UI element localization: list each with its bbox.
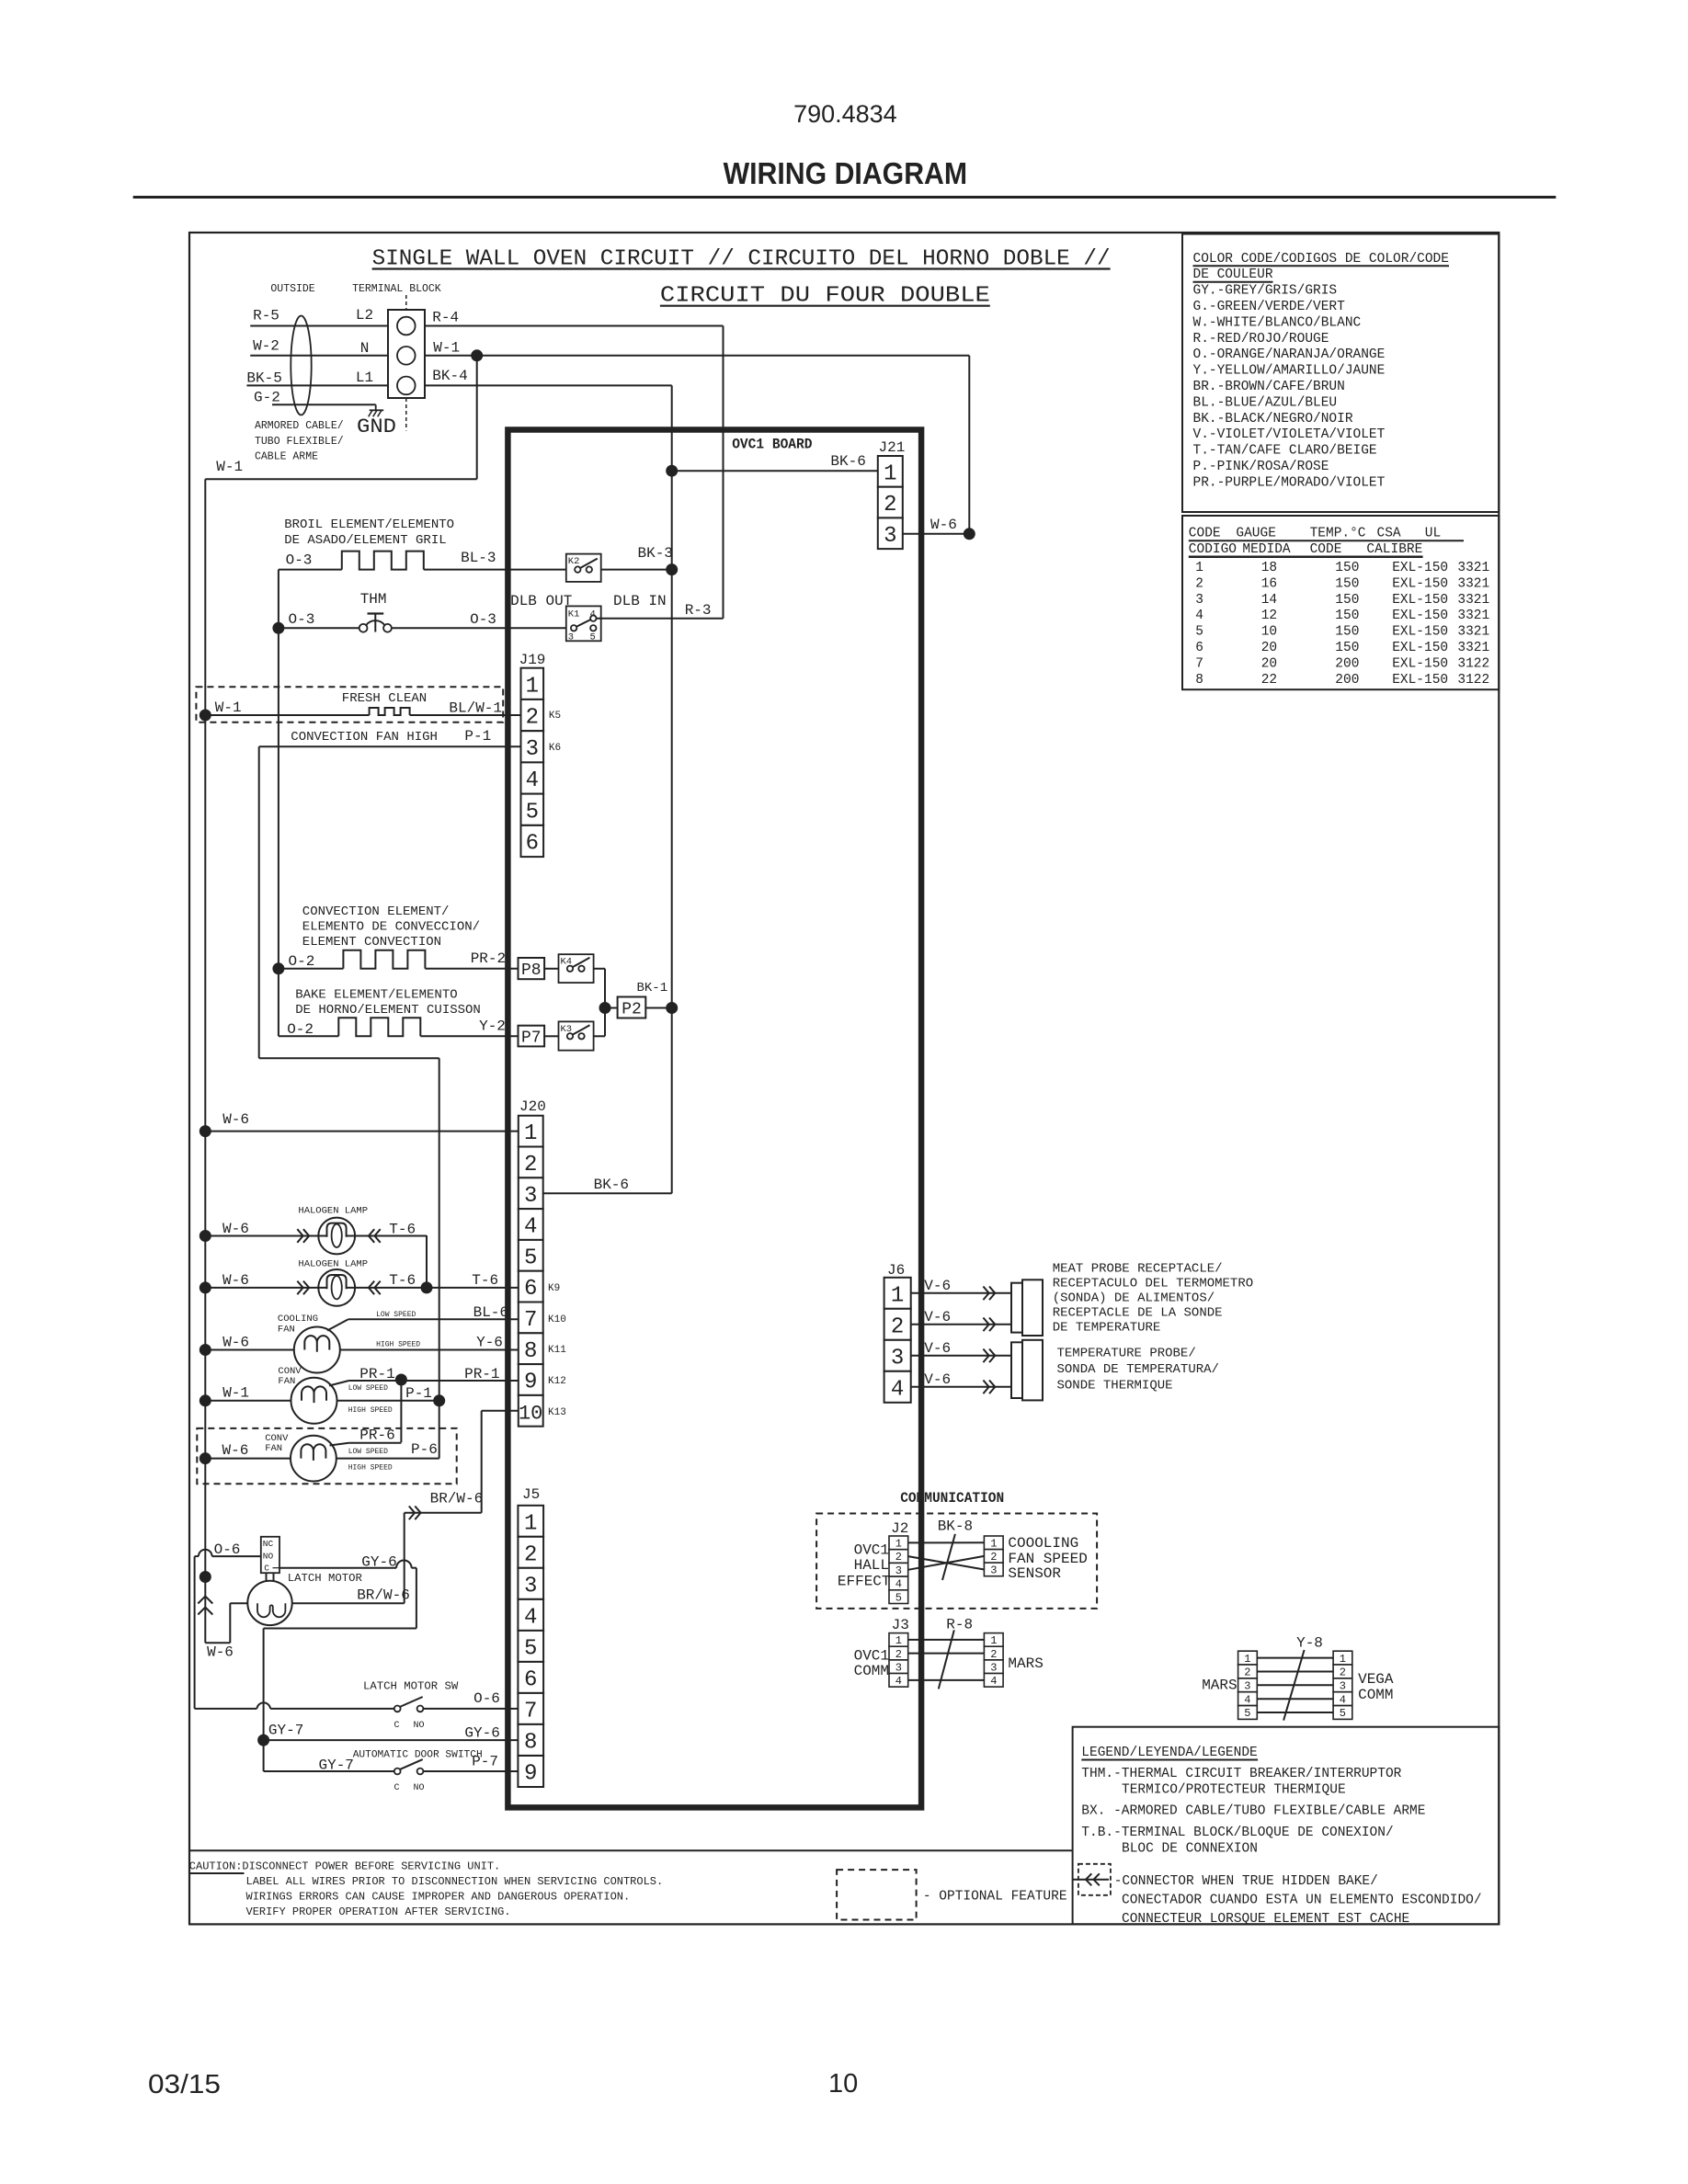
diagram border frame (189, 233, 1499, 1924)
junction dot GY-7 (258, 1723, 304, 1746)
ground symbol GND (357, 404, 396, 438)
schematic title line 1 (372, 247, 1111, 272)
svg-text:HALOGEN LAMP: HALOGEN LAMP (298, 1259, 368, 1270)
svg-text:EXL-150: EXL-150 (1392, 641, 1448, 655)
left neutral bus W-1/W-6 (204, 479, 206, 1643)
svg-text:4: 4 (891, 1377, 904, 1402)
svg-text:L1: L1 (356, 370, 373, 386)
svg-text:O.-ORANGE/NARANJA/ORANGE: O.-ORANGE/NARANJA/ORANGE (1193, 347, 1386, 362)
svg-text:WIRING DIAGRAM: WIRING DIAGRAM (724, 156, 968, 190)
svg-text:HALL: HALL (854, 1557, 889, 1574)
label COOOLING FAN SPEED SENSOR (1008, 1535, 1087, 1582)
svg-text:CABLE ARME: CABLE ARME (255, 451, 318, 463)
svg-text:(SONDA) DE ALIMENTOS/: (SONDA) DE ALIMENTOS/ (1053, 1291, 1215, 1306)
svg-text:5: 5 (526, 800, 539, 825)
cable Y-8 (1283, 1635, 1323, 1721)
svg-text:K13: K13 (548, 1407, 566, 1418)
svg-text:PR.-PURPLE/MORADO/VIOLET: PR.-PURPLE/MORADO/VIOLET (1193, 475, 1386, 490)
svg-text:790.4834: 790.4834 (793, 100, 897, 128)
svg-text:150: 150 (1335, 593, 1359, 608)
svg-text:COMM: COMM (854, 1663, 889, 1679)
terminal block TB (388, 310, 425, 398)
svg-text:NC: NC (263, 1539, 274, 1549)
svg-text:FAN: FAN (278, 1376, 295, 1387)
svg-text:ELEMENTO DE CONVECCION/: ELEMENTO DE CONVECCION/ (302, 920, 480, 935)
svg-text:2: 2 (1244, 1666, 1250, 1679)
svg-text:3: 3 (990, 1564, 997, 1577)
svg-text:1: 1 (990, 1634, 997, 1647)
svg-text:BLOC DE CONNEXION: BLOC DE CONNEXION (1122, 1842, 1258, 1857)
wire BK-4 vertical bus (425, 368, 672, 1193)
svg-text:4: 4 (895, 1675, 902, 1688)
svg-text:CODE: CODE (1189, 527, 1221, 541)
svg-text:THM: THM (360, 591, 387, 608)
svg-text:K6: K6 (549, 743, 561, 754)
svg-text:BK-8: BK-8 (938, 1519, 973, 1535)
svg-text:WIRINGS ERRORS CAN CAUSE IMPRO: WIRINGS ERRORS CAN CAUSE IMPROPER AND DA… (246, 1891, 631, 1904)
svg-text:2: 2 (895, 1648, 902, 1661)
connector P8 (519, 958, 545, 980)
svg-text:EXL-150: EXL-150 (1392, 561, 1448, 575)
svg-text:GY-6: GY-6 (464, 1725, 499, 1742)
svg-text:W-6: W-6 (222, 1442, 249, 1459)
svg-text:3122: 3122 (1457, 673, 1489, 688)
wire BK-5 (246, 370, 388, 387)
svg-text:5: 5 (1244, 1707, 1250, 1720)
svg-text:3: 3 (1195, 593, 1203, 608)
svg-text:DE TEMPERATURE: DE TEMPERATURE (1053, 1321, 1161, 1336)
label DLB OUT / DLB IN (510, 593, 711, 619)
label COMMUNICATION (900, 1490, 1004, 1507)
svg-text:7: 7 (1195, 657, 1203, 672)
svg-text:3: 3 (895, 1661, 902, 1674)
svg-text:VEGA: VEGA (1358, 1671, 1394, 1688)
wire PR-1 conv fan low speed (329, 1366, 519, 1393)
svg-text:PR-1: PR-1 (464, 1366, 499, 1382)
convection fan motor (200, 1366, 439, 1424)
wire Y-6 cooling fan high speed (376, 1335, 503, 1351)
armored cable ellipse (291, 316, 311, 415)
wire J3 pin2 (908, 1653, 985, 1655)
connector J6 (884, 1262, 911, 1403)
svg-text:- OPTIONAL FEATURE: - OPTIONAL FEATURE (923, 1890, 1067, 1905)
latch motor M1 (247, 1572, 362, 1625)
svg-text:MEAT PROBE RECEPTACLE/: MEAT PROBE RECEPTACLE/ (1053, 1262, 1223, 1277)
terminal labels L2 N L1 (356, 307, 373, 386)
svg-text:3122: 3122 (1457, 657, 1489, 672)
svg-text:BX. -ARMORED CABLE/TUBO FLEXIB: BX. -ARMORED CABLE/TUBO FLEXIBLE/CABLE A… (1081, 1804, 1425, 1819)
connector P7 (519, 1026, 545, 1048)
svg-text:3321: 3321 (1457, 576, 1489, 591)
svg-text:P-6: P-6 (411, 1441, 438, 1458)
wire V-6 J6 pin2 (911, 1309, 1011, 1331)
svg-text:BROIL ELEMENT/ELEMENTO: BROIL ELEMENT/ELEMENTO (284, 518, 454, 532)
wire BL-6 cooling fan low speed (327, 1304, 519, 1331)
svg-text:P-7: P-7 (472, 1754, 498, 1770)
svg-text:LOW SPEED: LOW SPEED (348, 1384, 388, 1393)
svg-text:DE COULEUR: DE COULEUR (1193, 267, 1273, 282)
svg-text:2: 2 (990, 1648, 997, 1661)
label meat probe receptacle (1053, 1262, 1253, 1336)
svg-text:V-6: V-6 (924, 1309, 951, 1325)
svg-text:V-6: V-6 (924, 1371, 951, 1388)
svg-text:TEMPERATURE PROBE/: TEMPERATURE PROBE/ (1057, 1347, 1196, 1361)
svg-text:18: 18 (1261, 561, 1277, 575)
wire PR-6 optional fan low speed (330, 1428, 402, 1457)
svg-text:2: 2 (895, 1551, 902, 1564)
svg-text:1: 1 (895, 1634, 902, 1647)
svg-text:BK.-BLACK/NEGRO/NOIR: BK.-BLACK/NEGRO/NOIR (1193, 412, 1353, 427)
schematic title line 2 (660, 284, 990, 309)
page title WIRING DIAGRAM (724, 156, 968, 190)
svg-text:150: 150 (1335, 625, 1359, 640)
svg-text:BK-6: BK-6 (594, 1177, 629, 1193)
latch switch contacts NC NO C (261, 1537, 279, 1582)
svg-text:7: 7 (524, 1700, 537, 1724)
optional FRESH CLEAN dashed box (196, 687, 503, 722)
svg-text:1: 1 (526, 675, 539, 700)
thermal breaker THM (359, 591, 392, 632)
svg-text:R-5: R-5 (253, 308, 279, 324)
svg-text:CONVECTION FAN HIGH: CONVECTION FAN HIGH (291, 730, 438, 745)
svg-text:CALIBRE: CALIBRE (1366, 542, 1422, 557)
svg-text:4: 4 (1340, 1693, 1346, 1706)
wire GY-6 from C (264, 1554, 416, 1741)
convection element heater (273, 950, 519, 974)
svg-text:SENSOR: SENSOR (1008, 1565, 1061, 1582)
relay K2 (566, 554, 601, 582)
wire MARS-VEGA pin2 (1257, 1671, 1333, 1673)
svg-text:HIGH SPEED: HIGH SPEED (348, 1406, 393, 1415)
label BROIL ELEMENT (284, 518, 454, 548)
MARS connector (984, 1633, 1043, 1689)
svg-text:DLB OUT: DLB OUT (510, 593, 572, 609)
svg-text:200: 200 (1335, 673, 1359, 688)
connector J19 (519, 652, 546, 857)
svg-text:9: 9 (524, 1762, 537, 1787)
wire MARS-VEGA pin5 (1257, 1712, 1333, 1713)
svg-text:GY-7: GY-7 (319, 1757, 354, 1774)
connector J21 (878, 439, 906, 549)
svg-text:9: 9 (524, 1371, 537, 1395)
wire J2 pin2 to sensor pin3 (908, 1556, 985, 1569)
svg-text:ARMORED CABLE/: ARMORED CABLE/ (255, 420, 344, 432)
svg-text:6: 6 (526, 832, 539, 857)
svg-text:W-6: W-6 (207, 1644, 234, 1661)
svg-text:O-3: O-3 (286, 552, 313, 569)
svg-text:-CONNECTOR WHEN TRUE HIDDEN BA: -CONNECTOR WHEN TRUE HIDDEN BAKE/ (1114, 1874, 1378, 1889)
svg-text:CSA: CSA (1377, 527, 1401, 541)
svg-text:1: 1 (524, 1512, 537, 1537)
terminal block dashed centerline (405, 295, 407, 431)
label TERMINAL BLOCK (352, 283, 441, 295)
cable BK-8 (938, 1519, 973, 1581)
svg-text:LOW SPEED: LOW SPEED (348, 1448, 388, 1456)
svg-text:K9: K9 (548, 1283, 560, 1294)
svg-text:THM.-THERMAL CIRCUIT BREAKER/I: THM.-THERMAL CIRCUIT BREAKER/INTERRUPTOR (1081, 1767, 1401, 1781)
svg-text:14: 14 (1261, 593, 1277, 608)
svg-text:COLOR CODE/CODIGOS DE COLOR/CO: COLOR CODE/CODIGOS DE COLOR/CODE (1193, 252, 1449, 267)
svg-text:G.-GREEN/VERDE/VERT: G.-GREEN/VERDE/VERT (1193, 300, 1346, 314)
svg-text:5: 5 (1195, 625, 1203, 640)
svg-text:TEMP.°C: TEMP.°C (1310, 527, 1366, 541)
label OVC1 BOARD (732, 437, 812, 453)
svg-text:J20: J20 (519, 1098, 546, 1115)
svg-text:1: 1 (1195, 561, 1203, 575)
latch motor switch SW1 (195, 1680, 519, 1732)
svg-text:K12: K12 (548, 1376, 566, 1387)
svg-text:K1: K1 (568, 609, 580, 620)
wire W-2 (250, 338, 388, 356)
svg-text:5: 5 (1340, 1707, 1346, 1720)
svg-text:4: 4 (526, 768, 539, 793)
connector J5 (518, 1486, 543, 1787)
svg-text:BK-5: BK-5 (246, 370, 281, 387)
wire J2 pin3 to sensor pin2 (908, 1556, 985, 1570)
svg-text:PR-2: PR-2 (471, 950, 506, 967)
label ARMORED CABLE / TUBO FLEXIBLE / CABLE ARME (255, 420, 344, 463)
wire T-6 to J20 pin6 (427, 1272, 519, 1289)
label temperature probe (1057, 1347, 1219, 1393)
wire W-1 drop to left bus (205, 356, 476, 479)
svg-text:ELEMENT CONVECTION: ELEMENT CONVECTION (302, 935, 441, 950)
svg-text:MARS: MARS (1008, 1655, 1043, 1672)
svg-text:2: 2 (990, 1551, 997, 1564)
svg-text:2: 2 (891, 1314, 904, 1339)
svg-text:3321: 3321 (1457, 593, 1489, 608)
svg-text:3: 3 (524, 1184, 537, 1209)
wire V-6 J6 pin3 (911, 1340, 1011, 1362)
svg-text:MEDIDA: MEDIDA (1242, 542, 1291, 557)
svg-text:150: 150 (1335, 609, 1359, 623)
svg-text:SONDA DE TEMPERATURA/: SONDA DE TEMPERATURA/ (1057, 1362, 1219, 1377)
relay K3 (544, 1021, 605, 1050)
communication dashed box (816, 1514, 1097, 1609)
svg-text:SONDE THERMIQUE: SONDE THERMIQUE (1057, 1379, 1173, 1393)
wire K4/K3 junction to P2 (599, 969, 618, 1037)
svg-text:10: 10 (828, 2069, 858, 2099)
svg-text:Y-2: Y-2 (479, 1018, 506, 1035)
OVC1 control board outline (508, 430, 921, 1808)
svg-text:K5: K5 (549, 711, 561, 722)
legend box (1073, 1727, 1500, 1925)
svg-text:L2: L2 (356, 307, 373, 324)
svg-text:2: 2 (524, 1153, 537, 1177)
svg-text:3321: 3321 (1457, 641, 1489, 655)
svg-text:O-6: O-6 (473, 1690, 500, 1707)
relay K1 DLB (566, 606, 601, 643)
svg-text:3: 3 (884, 524, 896, 549)
wire MARS-VEGA pin1 (1257, 1657, 1333, 1659)
svg-text:12: 12 (1261, 609, 1277, 623)
wire T-6 lamp junction (421, 1235, 432, 1293)
svg-text:3: 3 (1244, 1680, 1250, 1693)
svg-text:EFFECT: EFFECT (838, 1574, 891, 1590)
svg-text:CAUTION:DISCONNECT POWER BEFOR: CAUTION:DISCONNECT POWER BEFORE SERVICIN… (189, 1860, 500, 1873)
svg-text:J19: J19 (519, 652, 546, 668)
svg-text:5: 5 (524, 1637, 537, 1662)
svg-text:BR.-BROWN/CAFE/BRUN: BR.-BROWN/CAFE/BRUN (1193, 380, 1345, 394)
svg-text:O-2: O-2 (289, 953, 315, 970)
cooling fan motor (200, 1314, 519, 1373)
wire W-6 from J21 pin3 (903, 517, 975, 540)
optional convection fan motor (200, 1433, 439, 1482)
header rule (133, 196, 1557, 199)
svg-text:3321: 3321 (1457, 561, 1489, 575)
svg-text:O-3: O-3 (289, 611, 315, 628)
svg-text:J5: J5 (522, 1486, 540, 1503)
svg-text:K2: K2 (568, 556, 580, 567)
svg-text:K11: K11 (548, 1345, 566, 1356)
svg-text:Y-8: Y-8 (1296, 1635, 1323, 1652)
svg-text:3321: 3321 (1457, 625, 1489, 640)
svg-text:R-4: R-4 (432, 310, 459, 326)
svg-text:GY-7: GY-7 (268, 1723, 303, 1739)
wire J3 pin4 (908, 1679, 985, 1681)
wire BR/W-6 to J20 pin10 (405, 1411, 519, 1603)
label OUTSIDE (270, 283, 314, 295)
svg-text:Y.-YELLOW/AMARILLO/JAUNE: Y.-YELLOW/AMARILLO/JAUNE (1193, 364, 1386, 379)
wire P-6 optional fan high speed (348, 1441, 438, 1473)
svg-text:T-6: T-6 (389, 1272, 416, 1289)
svg-text:2: 2 (526, 706, 539, 731)
wire MARS-VEGA pin3 (1257, 1684, 1333, 1686)
svg-text:AUTOMATIC DOOR SWITCH: AUTOMATIC DOOR SWITCH (353, 1750, 483, 1761)
svg-text:OVC1: OVC1 (854, 1542, 889, 1559)
svg-text:P7: P7 (521, 1029, 542, 1047)
wire gauge table (1182, 516, 1499, 689)
svg-text:T-6: T-6 (472, 1272, 498, 1289)
svg-text:3321: 3321 (1457, 609, 1489, 623)
svg-text:1: 1 (891, 1283, 904, 1308)
svg-text:HALOGEN LAMP: HALOGEN LAMP (298, 1206, 368, 1217)
svg-text:LEGEND/LEYENDA/LEGENDE: LEGEND/LEYENDA/LEGENDE (1081, 1746, 1257, 1760)
label BAKE ELEMENT (295, 988, 481, 1018)
svg-text:R-3: R-3 (685, 602, 712, 619)
svg-text:HIGH SPEED: HIGH SPEED (376, 1341, 420, 1349)
cable R-8 (939, 1617, 973, 1689)
svg-text:J2: J2 (891, 1520, 908, 1537)
svg-text:6: 6 (524, 1277, 537, 1302)
hidden bake connector symbol (1073, 1864, 1482, 1927)
wire P-1 convection fan high (259, 728, 521, 1459)
svg-text:R-8: R-8 (946, 1617, 973, 1633)
halogen lamp 2 (200, 1259, 427, 1306)
svg-text:DLB IN: DLB IN (613, 593, 667, 609)
svg-text:T.-TAN/CAFE CLARO/BEIGE: T.-TAN/CAFE CLARO/BEIGE (1193, 444, 1377, 459)
svg-text:150: 150 (1335, 576, 1359, 591)
svg-text:150: 150 (1335, 561, 1359, 575)
temperature probe (1011, 1340, 1043, 1401)
svg-text:03/15: 03/15 (148, 2070, 221, 2099)
optional feature dashed box (837, 1870, 1066, 1919)
svg-text:OUTSIDE: OUTSIDE (270, 283, 314, 295)
svg-text:J3: J3 (892, 1617, 909, 1633)
svg-text:BL-3: BL-3 (461, 550, 496, 566)
svg-text:K10: K10 (548, 1314, 566, 1325)
wire P-1 conv fan high speed (348, 1385, 445, 1415)
svg-text:4: 4 (524, 1606, 537, 1631)
svg-text:1: 1 (884, 462, 896, 487)
svg-text:BAKE ELEMENT/ELEMENTO: BAKE ELEMENT/ELEMENTO (295, 988, 457, 1003)
halogen lamp 1 (200, 1206, 427, 1255)
svg-text:O-3: O-3 (470, 611, 496, 628)
svg-text:BK-4: BK-4 (432, 368, 467, 384)
svg-text:200: 200 (1335, 657, 1359, 672)
svg-text:1: 1 (990, 1538, 997, 1551)
svg-text:BR/W-6: BR/W-6 (357, 1587, 410, 1604)
svg-text:COOLING: COOLING (278, 1314, 318, 1325)
color code legend box (1182, 234, 1499, 513)
broil element heater (279, 550, 566, 570)
svg-text:3: 3 (895, 1564, 902, 1577)
svg-text:6: 6 (524, 1668, 537, 1693)
svg-text:C: C (394, 1721, 400, 1731)
svg-text:NO: NO (414, 1721, 425, 1731)
svg-text:COMMUNICATION: COMMUNICATION (900, 1490, 1004, 1507)
svg-text:V-6: V-6 (924, 1278, 951, 1294)
svg-text:5: 5 (524, 1246, 537, 1270)
svg-text:4: 4 (1244, 1693, 1250, 1706)
wire BK-6 from J20 pin3 (543, 1177, 672, 1193)
svg-text:3: 3 (891, 1346, 904, 1371)
wire W-6 to J20 pin1 (200, 1111, 519, 1137)
svg-text:EXL-150: EXL-150 (1392, 576, 1448, 591)
svg-text:P-1: P-1 (405, 1385, 432, 1402)
svg-text:4: 4 (895, 1578, 902, 1591)
svg-text:COMM: COMM (1358, 1687, 1393, 1703)
svg-text:V.-VIOLET/VIOLETA/VIOLET: V.-VIOLET/VIOLETA/VIOLET (1193, 427, 1386, 442)
svg-text:CODE: CODE (1310, 542, 1342, 557)
svg-text:3: 3 (1340, 1680, 1346, 1693)
svg-text:3: 3 (526, 737, 539, 762)
svg-text:W-1: W-1 (433, 340, 460, 357)
svg-text:BR/W-6: BR/W-6 (430, 1491, 484, 1507)
svg-text:RECEPTACLE DE LA SONDE: RECEPTACLE DE LA SONDE (1053, 1306, 1223, 1321)
svg-text:3: 3 (524, 1575, 537, 1599)
svg-text:EXL-150: EXL-150 (1392, 609, 1448, 623)
junction dot W-6 latch (200, 1572, 211, 1583)
svg-text:TERMICO/PROTECTEUR THERMIQUE: TERMICO/PROTECTEUR THERMIQUE (1122, 1783, 1346, 1798)
automatic door switch SW2 (264, 1740, 519, 1793)
svg-text:RECEPTACULO DEL TERMOMETRO: RECEPTACULO DEL TERMOMETRO (1053, 1277, 1253, 1291)
wire BK-6 to J21 pin1 (667, 453, 878, 476)
wire W-6 latch branch (205, 1603, 247, 1660)
svg-text:6: 6 (1195, 641, 1203, 655)
connector J3 (889, 1617, 909, 1688)
junction dot W-1 (472, 350, 483, 361)
svg-text:3: 3 (990, 1661, 997, 1674)
svg-text:10: 10 (519, 1402, 542, 1425)
connector P2 BK-1 (618, 981, 678, 1018)
connector J2 (889, 1520, 908, 1604)
svg-text:150: 150 (1335, 641, 1359, 655)
svg-text:P.-PINK/ROSA/ROSE: P.-PINK/ROSA/ROSE (1193, 460, 1329, 474)
svg-text:1: 1 (524, 1121, 537, 1146)
wire O-6 to latch NO (195, 1541, 261, 1709)
wire J3 pin1 (908, 1639, 985, 1641)
caution text (189, 1860, 663, 1919)
svg-text:W.-WHITE/BLANCO/BLANC: W.-WHITE/BLANCO/BLANC (1193, 315, 1362, 330)
meat probe receptacle (1011, 1280, 1043, 1336)
svg-text:W-6: W-6 (222, 1111, 249, 1128)
caution separator line (189, 1849, 1073, 1851)
bake element heater (279, 1018, 519, 1038)
svg-text:2: 2 (884, 493, 896, 518)
svg-text:8: 8 (524, 1339, 537, 1364)
svg-text:FAN: FAN (265, 1443, 282, 1454)
svg-text:C: C (394, 1783, 400, 1793)
